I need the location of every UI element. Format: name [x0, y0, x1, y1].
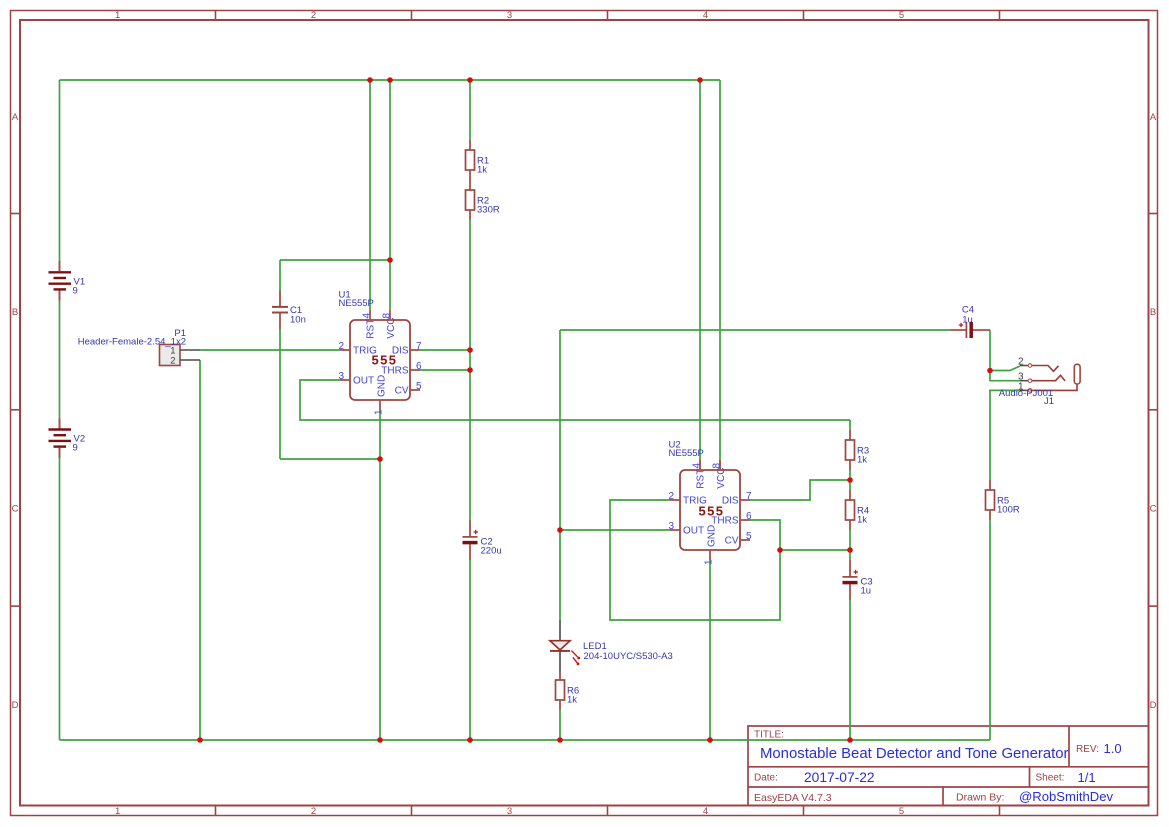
svg-text:1.0: 1.0 [1104, 741, 1122, 756]
wire C1 top link horizontal [280, 259, 390, 261]
wire C3 tap [780, 549, 850, 551]
svg-text:3: 3 [507, 10, 512, 21]
junction R4 / C3 node [847, 547, 853, 553]
junction ground rail / C3 [847, 737, 853, 743]
svg-text:6: 6 [416, 361, 422, 372]
svg-text:1: 1 [115, 806, 120, 817]
wire R4 to C3 [849, 530, 851, 560]
wire U1 GND drop [379, 410, 381, 740]
svg-text:VCC: VCC [716, 468, 727, 489]
svg-text:1: 1 [374, 409, 385, 415]
svg-text:9: 9 [73, 285, 78, 296]
wire U2 TRIG-THRS loop [610, 500, 780, 620]
junction at VCC rail / U2 RST [697, 77, 703, 83]
junction ground rail / U2 GND [707, 737, 713, 743]
svg-text:Sheet:: Sheet: [1036, 773, 1065, 784]
svg-text:2: 2 [668, 491, 674, 502]
wire R3 top stub [849, 420, 851, 430]
wire R5 to ground rail [989, 520, 991, 740]
wire VCC top rail [60, 79, 721, 81]
svg-text:2: 2 [311, 10, 316, 21]
svg-text:204-10UYC/S530-A3: 204-10UYC/S530-A3 [584, 651, 673, 662]
svg-text:B: B [12, 307, 18, 318]
svg-text:5: 5 [746, 531, 752, 542]
junction THRS loop / C3 tap [777, 547, 783, 553]
svg-text:J1: J1 [1044, 396, 1054, 407]
LED LED1 [550, 620, 673, 671]
svg-text:220u: 220u [481, 546, 502, 557]
junction C1 bottom / U1 GND drop [377, 456, 383, 462]
wire C1 top drop [279, 260, 281, 291]
svg-text:5: 5 [899, 10, 904, 21]
wire V2 to ground rail [59, 458, 61, 740]
svg-text:NE555P: NE555P [339, 298, 374, 309]
battery V2 [49, 419, 86, 459]
wire R2 to C2 column [469, 220, 471, 520]
svg-text:555: 555 [699, 503, 725, 518]
wire C1 bottom drop [279, 330, 281, 460]
svg-text:7: 7 [746, 491, 752, 502]
wire LED1 feed [559, 530, 561, 620]
svg-text:2: 2 [170, 355, 175, 366]
op-amp U1 (555 timer NE555P) [338, 290, 422, 415]
svg-text:9: 9 [73, 443, 78, 454]
wire U2 VCC riser [719, 80, 721, 470]
svg-text:OUT: OUT [683, 526, 704, 537]
junction C4 / jack feeds [987, 368, 993, 374]
svg-text:3: 3 [668, 521, 674, 532]
svg-text:VCC: VCC [386, 318, 397, 339]
svg-text:1/1: 1/1 [1078, 770, 1096, 785]
wire V1 top feed [59, 80, 61, 261]
wire ground bottom rail [60, 739, 991, 741]
svg-text:Date:: Date: [754, 773, 778, 784]
svg-text:2: 2 [338, 341, 344, 352]
svg-text:3: 3 [507, 806, 512, 817]
svg-text:10n: 10n [290, 315, 306, 326]
svg-text:3: 3 [338, 371, 344, 382]
junction R3/R4/DIS node [847, 477, 853, 483]
svg-text:6: 6 [746, 511, 752, 522]
resistor R1 [466, 140, 490, 180]
svg-text:GND: GND [376, 375, 387, 397]
wire U1 VCC riser [389, 80, 391, 310]
svg-text:RST: RST [366, 319, 377, 339]
svg-text:4: 4 [692, 463, 703, 469]
junction ground rail / P1 pin2 [197, 737, 203, 743]
junction C1 / U1 VCC riser [387, 257, 393, 263]
wire U2 OUT to C4 horizontal [560, 329, 950, 331]
svg-text:1: 1 [704, 559, 715, 565]
resistor R4 [846, 490, 870, 530]
wire U1 OUT loop to R3 [300, 380, 850, 420]
svg-text:2017-07-22: 2017-07-22 [804, 770, 875, 785]
junction ground rail / R6 [557, 737, 563, 743]
wire P1 pin2 to ground rail [199, 360, 201, 740]
capacitor C4 (polarized 1u) [950, 304, 990, 338]
svg-text:1u: 1u [861, 586, 872, 597]
wire C4 riser [559, 330, 561, 530]
svg-text:100R: 100R [997, 505, 1020, 516]
wire VCC to R1 [469, 80, 471, 140]
svg-text:4: 4 [703, 806, 708, 817]
wire U2 RST riser [699, 80, 701, 470]
svg-text:1: 1 [115, 10, 120, 21]
wire C2 to ground rail [469, 560, 471, 740]
junction at VCC rail / R1 [467, 77, 473, 83]
svg-text:Monostable Beat Detector and T: Monostable Beat Detector and Tone Genera… [760, 746, 1069, 762]
junction ground rail / U1 GND [377, 737, 383, 743]
wire C1 to U1 GND net [280, 458, 380, 460]
svg-text:1k: 1k [857, 455, 867, 466]
svg-text:330R: 330R [477, 205, 500, 216]
svg-text:7: 7 [416, 341, 422, 352]
svg-text:4: 4 [362, 313, 373, 319]
svg-text:2: 2 [1018, 357, 1024, 368]
op-amp U2 (555 timer NE555P) [668, 440, 752, 565]
wire C3 to ground rail [849, 600, 851, 740]
junction at VCC rail / U1 RST [367, 77, 373, 83]
svg-text:@RobSmithDev: @RobSmithDev [1019, 789, 1114, 804]
wire U2 DIS to divider node [750, 480, 850, 500]
junction U2 OUT node [557, 527, 563, 533]
svg-text:2: 2 [311, 806, 316, 817]
resistor R6 [556, 670, 580, 710]
wire jack pin2 feed [990, 366, 1020, 371]
svg-text:B: B [1150, 307, 1156, 318]
svg-text:EasyEDA V4.7.3: EasyEDA V4.7.3 [754, 792, 832, 804]
wire V1-V2 link [59, 301, 61, 419]
svg-text:Drawn By:: Drawn By: [956, 792, 1004, 804]
svg-text:5: 5 [899, 806, 904, 817]
svg-text:NE555P: NE555P [669, 448, 704, 459]
svg-text:GND: GND [706, 525, 717, 547]
wire U1 DIS to R2 node [420, 349, 470, 351]
svg-text:A: A [1150, 112, 1157, 123]
svg-text:OUT: OUT [353, 376, 374, 387]
svg-text:REV:: REV: [1076, 744, 1099, 755]
resistor R2 [466, 180, 500, 220]
wire P1 pin1 to U1 TRIG [200, 349, 340, 351]
wire jack pin1 to R5 [990, 390, 1020, 480]
connector J1 (Audio-PJ001 jack) [999, 357, 1080, 408]
junction U1 THRS node [467, 367, 473, 373]
junction at VCC rail / U1 VCC [387, 77, 393, 83]
svg-text:CV: CV [395, 386, 409, 397]
capacitor C1 [272, 291, 306, 330]
svg-text:1k: 1k [567, 695, 577, 706]
wire U1 RST riser [369, 80, 371, 310]
wire U1 THRS to C2 node [420, 369, 470, 371]
junction U1 DIS node [467, 347, 473, 353]
svg-text:1k: 1k [477, 165, 487, 176]
svg-text:TITLE:: TITLE: [754, 730, 784, 741]
svg-text:D: D [1150, 700, 1157, 711]
svg-text:C: C [1150, 504, 1157, 515]
wire R3-R4 node [849, 470, 851, 490]
wire U2 GND drop [709, 560, 711, 740]
TITLEBLOCK [748, 726, 1149, 806]
svg-text:RST: RST [696, 469, 707, 489]
battery V1 [49, 261, 86, 301]
svg-text:CV: CV [725, 536, 739, 547]
capacitor C3 (polarized 1u) [843, 560, 873, 600]
resistor R3 [846, 430, 870, 470]
junction ground rail / C2 [467, 737, 473, 743]
wire U2 OUT [560, 529, 670, 531]
capacitor C2 (polarized 220u) [463, 520, 502, 560]
svg-text:C: C [12, 504, 19, 515]
wire jack pin3 feed [990, 371, 1020, 381]
svg-text:1k: 1k [857, 515, 867, 526]
svg-text:Header-Female-2.54_1x2: Header-Female-2.54_1x2 [78, 336, 186, 347]
svg-text:D: D [12, 700, 19, 711]
svg-text:5: 5 [416, 381, 422, 392]
svg-text:1u: 1u [962, 314, 973, 325]
svg-text:4: 4 [703, 10, 708, 21]
resistor R5 [986, 480, 1020, 520]
wire C4 to jack drop [989, 330, 991, 371]
svg-text:A: A [12, 112, 19, 123]
connector P1 [78, 328, 200, 367]
svg-text:555: 555 [372, 352, 398, 367]
wire R6 to ground rail [559, 710, 561, 740]
